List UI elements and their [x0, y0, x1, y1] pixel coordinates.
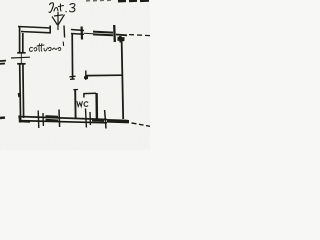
left exterior wall (double) upper part — [17, 27, 25, 53]
WC right wall — [95, 93, 98, 119]
WC label (hand-drawn) — [77, 102, 88, 107]
window crossing tick on left wall — [11, 56, 30, 59]
bottom right corner thick bar — [107, 119, 129, 123]
paper background — [0, 0, 150, 150]
dashed line bottom right — [132, 123, 151, 126]
dashed line top right — [129, 35, 150, 36]
left end cap of interior wall — [85, 71, 87, 81]
window sill thin line — [84, 32, 93, 35]
wall to top-right corner — [116, 34, 127, 37]
WC left wall — [74, 90, 76, 118]
long slanted tick — [105, 110, 106, 129]
window thin center line — [20, 53, 22, 64]
label Int. 3 (hand-drawn) — [49, 3, 75, 13]
bottom-left corner thickening — [19, 116, 20, 123]
top edge cut-off marks (light) — [86, 0, 111, 2]
door end tick — [70, 76, 76, 79]
window bar — [93, 32, 113, 36]
interior horizontal wall — [86, 74, 122, 76]
right exterior wall — [122, 38, 124, 119]
top wall left segment (double line) — [18, 26, 51, 34]
top edge cut-off marks (dark) — [118, 0, 149, 3]
stray tick near door — [62, 42, 64, 47]
bottom window bar — [46, 115, 59, 118]
interior vertical wall (hall / room divider) — [71, 33, 73, 79]
WC top wall — [84, 92, 96, 94]
top wall right segment with window — [71, 30, 84, 35]
left edge artifact marks — [0, 61, 6, 64]
small cursive room label (scribble) — [30, 44, 61, 52]
door jamb right of entrance — [63, 26, 66, 38]
bottom window ticks (left group) — [37, 111, 40, 129]
bottom window ticks (right group) — [85, 109, 88, 128]
bottom exterior wall (double) — [19, 117, 107, 123]
entrance arrow — [52, 12, 65, 30]
window jamb — [80, 27, 83, 40]
window jamb right — [113, 25, 116, 42]
bottom thick bar under WC — [92, 118, 104, 122]
ink blob on left wall — [18, 93, 21, 97]
left wall lower cap — [17, 64, 25, 122]
top-right corner blob — [118, 37, 125, 41]
